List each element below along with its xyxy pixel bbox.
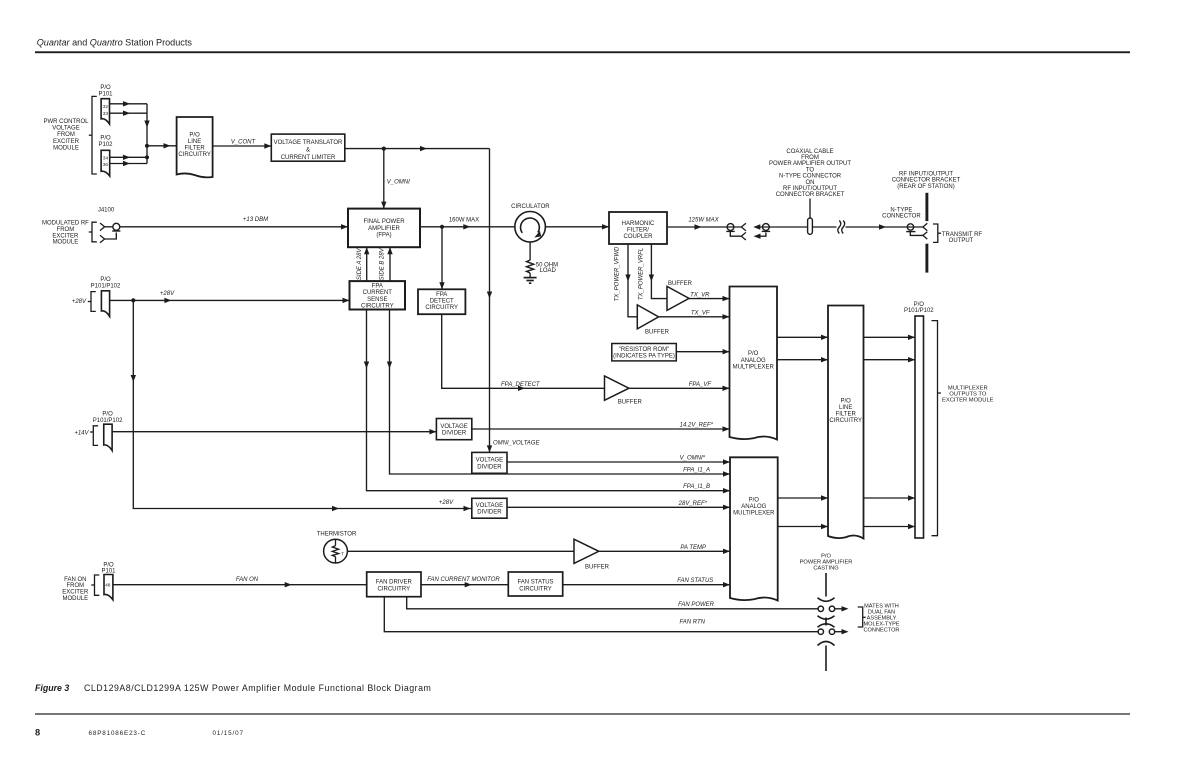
svg-text:CASTING: CASTING xyxy=(813,566,838,572)
ground xyxy=(524,277,537,279)
wire to FPA detect xyxy=(441,227,443,289)
svg-text:68P81086E23-C: 68P81086E23-C xyxy=(89,730,147,737)
wire +13 DBM xyxy=(120,226,348,228)
svg-text:FPA_I1_B: FPA_I1_B xyxy=(683,484,710,490)
svg-text:P101/P102: P101/P102 xyxy=(904,308,934,314)
svg-text:FINAL POWER: FINAL POWER xyxy=(363,219,405,225)
svg-text:J4100: J4100 xyxy=(98,208,115,214)
svg-text:COAXIAL CABLE: COAXIAL CABLE xyxy=(786,149,833,155)
wire mux2 out 1 xyxy=(778,497,828,499)
svg-text:BUFFER: BUFFER xyxy=(668,281,693,287)
svg-text:FROM: FROM xyxy=(57,227,75,233)
wire resistor ROM to mux xyxy=(676,351,729,353)
svg-text:+28V: +28V xyxy=(160,291,175,297)
svg-text:EXCITER MODULE: EXCITER MODULE xyxy=(942,398,994,404)
svg-text:BUFFER: BUFFER xyxy=(618,400,643,406)
svg-text:+14V: +14V xyxy=(74,430,89,436)
svg-text:FAN ON: FAN ON xyxy=(236,577,259,583)
wire SIDE A 28V xyxy=(366,247,368,281)
casting boundary middle xyxy=(818,616,835,619)
svg-text:THERMISTOR: THERMISTOR xyxy=(317,532,357,538)
svg-text:ANALOG: ANALOG xyxy=(741,504,766,510)
svg-text:DIVIDER: DIVIDER xyxy=(477,464,502,470)
svg-text:28V_REF*: 28V_REF* xyxy=(678,501,708,507)
wire FAN STATUS xyxy=(563,584,730,586)
svg-text:N-TYPE: N-TYPE xyxy=(890,208,912,214)
svg-text:CIRCUITRY: CIRCUITRY xyxy=(378,587,411,593)
svg-text:AMPLIFIER: AMPLIFIER xyxy=(368,226,400,232)
svg-text:TX_VR: TX_VR xyxy=(690,292,710,298)
label TRANSMIT RF OUTPUT xyxy=(933,224,938,242)
block VOLTAGE DIVIDER 1 xyxy=(436,419,471,440)
block P/O ANALOG MULTIPLEXER (upper) xyxy=(730,287,778,440)
label MULTIPLEXER OUTPUTS TO EXCITER MODULE xyxy=(932,321,938,536)
connector J4100 coax xyxy=(100,223,105,231)
svg-text:MODULE: MODULE xyxy=(62,596,88,602)
wire mux2 out 2 xyxy=(778,526,828,528)
svg-text:DIVIDER: DIVIDER xyxy=(442,430,467,436)
connector coax plug xyxy=(753,224,760,229)
svg-text:LINE: LINE xyxy=(188,139,201,145)
junction +28V xyxy=(131,298,135,302)
svg-text:VOLTAGE TRANSLATOR: VOLTAGE TRANSLATOR xyxy=(274,140,343,146)
wire TX_VF xyxy=(659,316,730,318)
svg-text:FILTER/: FILTER/ xyxy=(627,228,649,234)
junction main xyxy=(145,144,149,148)
wire into line filter xyxy=(147,145,177,147)
wire to 50 ohm load xyxy=(529,242,531,260)
svg-text:P/O: P/O xyxy=(914,302,925,308)
svg-text:"RESISTOR ROM": "RESISTOR ROM" xyxy=(619,347,670,353)
svg-text:HARMONIC: HARMONIC xyxy=(622,221,655,227)
connector P102 (pins 34/36) xyxy=(101,150,110,176)
svg-text:PWR CONTROL: PWR CONTROL xyxy=(44,119,90,125)
svg-text:FAN STATUS: FAN STATUS xyxy=(517,580,553,586)
svg-text:FAN POWER: FAN POWER xyxy=(678,602,715,608)
svg-text:MODULE: MODULE xyxy=(53,240,79,246)
wire +28V to divider xyxy=(133,300,472,508)
cable break symbol xyxy=(837,220,846,234)
wire FAN CURRENT MONITOR xyxy=(421,584,508,586)
svg-text:FPA_VF: FPA_VF xyxy=(689,382,712,388)
svg-text:DETECT: DETECT xyxy=(430,299,454,305)
wire filter out 1 xyxy=(864,336,916,338)
svg-text:FAN STATUS: FAN STATUS xyxy=(677,578,713,584)
wire 14.2V_REF xyxy=(472,428,730,430)
wire pin 34 xyxy=(110,156,147,158)
connector +14V xyxy=(104,424,112,450)
svg-text:P/O: P/O xyxy=(100,85,111,91)
svg-text:PA TEMP: PA TEMP xyxy=(680,545,706,551)
connector PA output jack xyxy=(727,224,734,231)
svg-text:Figure 3: Figure 3 xyxy=(35,683,69,693)
block VOLTAGE DIVIDER 3 xyxy=(472,498,507,518)
block VOLTAGE TRANSLATOR & CURRENT LIMITER xyxy=(271,134,345,161)
svg-text:Quantar and Quantro Station Pr: Quantar and Quantro Station Products xyxy=(37,38,193,48)
svg-text:N-TYPE CONNECTOR: N-TYPE CONNECTOR xyxy=(779,174,842,180)
bracket panel upper xyxy=(925,193,928,221)
svg-text:SENSE: SENSE xyxy=(367,297,387,303)
buffer U2 (TX_VF) xyxy=(637,305,658,329)
wire FPA_I1_A xyxy=(390,310,731,475)
wire pin 36 xyxy=(110,163,147,165)
svg-text:CONNECTOR BRACKET: CONNECTOR BRACKET xyxy=(776,192,845,198)
leader coax label xyxy=(809,199,811,219)
svg-text:VOLTAGE: VOLTAGE xyxy=(52,126,79,132)
svg-text:V_OMNI: V_OMNI xyxy=(387,180,410,186)
svg-text:P/O: P/O xyxy=(821,553,831,559)
svg-text:CIRCUITRY: CIRCUITRY xyxy=(178,152,211,158)
block FINAL POWER AMPLIFIER (FPA) xyxy=(348,209,420,248)
block FAN DRIVER CIRCUITRY xyxy=(367,572,421,597)
wire mux1 out 2 xyxy=(777,359,828,361)
connector +28V xyxy=(101,291,109,317)
svg-text:FAN ON: FAN ON xyxy=(64,577,86,583)
wire filter out 4 xyxy=(864,526,916,528)
svg-text:14.2V_REF*: 14.2V_REF* xyxy=(680,423,714,429)
svg-text:P/O: P/O xyxy=(749,498,760,504)
wire TX_POWER_VRFL xyxy=(651,244,667,299)
svg-text:BUFFER: BUFFER xyxy=(645,330,670,336)
svg-text:MODULATED RF: MODULATED RF xyxy=(42,221,89,227)
wire FPA_I1_B xyxy=(367,310,731,491)
block P/O LINE FILTER CIRCUITRY (output) xyxy=(828,306,864,539)
svg-text:36: 36 xyxy=(103,162,109,168)
wire pin 32 xyxy=(110,103,148,105)
block HARMONIC FILTER/COUPLER xyxy=(609,212,667,244)
svg-text:MULTIPLEXER: MULTIPLEXER xyxy=(733,511,775,517)
svg-text:FPA_DETECT: FPA_DETECT xyxy=(501,382,541,388)
svg-text:FILTER: FILTER xyxy=(836,411,857,417)
svg-text:48: 48 xyxy=(105,583,111,589)
wire 125W MAX xyxy=(667,226,741,228)
wire circulator output xyxy=(545,226,609,228)
svg-text:CURRENT LIMITER: CURRENT LIMITER xyxy=(281,155,336,161)
svg-text:RF INPUT/OUTPUT: RF INPUT/OUTPUT xyxy=(783,186,837,192)
block VOLTAGE DIVIDER 2 xyxy=(472,452,507,473)
footer rule xyxy=(35,713,1130,714)
svg-text:P102: P102 xyxy=(98,142,113,148)
wire filter out 3 xyxy=(864,497,916,499)
wire translator output xyxy=(345,148,490,150)
svg-text:8: 8 xyxy=(35,728,40,738)
svg-text:160W MAX: 160W MAX xyxy=(449,217,479,223)
svg-text:P/O: P/O xyxy=(841,398,852,404)
wire V_OMNI xyxy=(383,149,385,209)
svg-text:LOAD: LOAD xyxy=(540,268,557,274)
svg-text:+13 DBM: +13 DBM xyxy=(243,217,268,223)
svg-text:CONNECTOR BRACKET: CONNECTOR BRACKET xyxy=(892,178,961,184)
svg-text:OUTPUT: OUTPUT xyxy=(949,238,974,244)
bracket FAN ON xyxy=(95,575,100,595)
svg-text:ON: ON xyxy=(806,180,815,186)
contact FAN RTN pair xyxy=(818,629,823,634)
wire V_OMNI* xyxy=(507,461,730,463)
svg-text:FILTER: FILTER xyxy=(184,145,205,151)
svg-text:MULTIPLEXER: MULTIPLEXER xyxy=(733,364,775,370)
svg-text:P101/P102: P101/P102 xyxy=(93,418,123,424)
block RESISTOR ROM xyxy=(612,344,677,361)
svg-text:(INDICATES PA TYPE): (INDICATES PA TYPE) xyxy=(613,354,675,360)
connector N-type xyxy=(886,226,923,228)
svg-text:P/O: P/O xyxy=(100,136,111,142)
svg-text:&: & xyxy=(306,147,310,153)
bracket PWR CONTROL xyxy=(92,96,97,174)
bracket +14V xyxy=(93,426,98,446)
svg-text:P101/P102: P101/P102 xyxy=(91,283,121,289)
wire FAN RTN xyxy=(384,597,818,632)
casting boundary upper xyxy=(825,573,827,597)
svg-text:POWER AMPLIFIER OUTPUT: POWER AMPLIFIER OUTPUT xyxy=(769,161,851,167)
svg-text:CIRCUITRY: CIRCUITRY xyxy=(829,418,862,424)
svg-text:CLD129A8/CLD1299A 125W Power A: CLD129A8/CLD1299A 125W Power Amplifier M… xyxy=(84,683,431,693)
svg-text:OMNI_VOLTAGE: OMNI_VOLTAGE xyxy=(493,440,540,446)
svg-text:EXCITER: EXCITER xyxy=(52,233,79,239)
wire PA TEMP xyxy=(599,550,730,552)
svg-text:TX_VF: TX_VF xyxy=(691,310,710,316)
bracket +28V xyxy=(91,292,96,312)
svg-text:P/O: P/O xyxy=(748,351,759,357)
svg-text:FAN CURRENT MONITOR: FAN CURRENT MONITOR xyxy=(427,577,500,583)
svg-text:ANALOG: ANALOG xyxy=(741,358,766,364)
connector mux outputs xyxy=(915,316,924,538)
wire pin 33 xyxy=(110,112,148,114)
bracket J4100 xyxy=(92,222,97,242)
wire filter out 2 xyxy=(864,359,916,361)
svg-text:33: 33 xyxy=(103,111,109,117)
wire 28V_REF* xyxy=(507,506,730,508)
svg-text:MODULE: MODULE xyxy=(53,145,79,151)
svg-text:V_CONT: V_CONT xyxy=(231,139,257,145)
svg-text:CURRENT: CURRENT xyxy=(363,290,393,296)
buffer U4 (PA TEMP) xyxy=(574,539,599,563)
svg-text:FAN RTN: FAN RTN xyxy=(680,620,706,626)
svg-text:LINE: LINE xyxy=(839,405,852,411)
svg-text:RF INPUT/OUTPUT: RF INPUT/OUTPUT xyxy=(899,171,953,177)
svg-text:FPA: FPA xyxy=(436,292,447,298)
bracket panel lower xyxy=(925,244,928,273)
svg-text:P/O: P/O xyxy=(103,563,114,569)
svg-text:FPA_I1_A: FPA_I1_A xyxy=(683,468,710,474)
wire FAN POWER xyxy=(407,597,819,609)
junction pin34 xyxy=(145,155,149,159)
svg-text:T: T xyxy=(341,551,344,556)
svg-text:VOLTAGE: VOLTAGE xyxy=(476,503,503,509)
svg-text:EXCITER: EXCITER xyxy=(62,590,89,596)
svg-text:EXCITER: EXCITER xyxy=(53,139,80,145)
wire SIDE B 28V xyxy=(389,247,391,281)
block P/O ANALOG MULTIPLEXER (lower) xyxy=(730,457,778,600)
block FPA CURRENT SENSE CIRCUITRY xyxy=(350,281,406,309)
wire omni feed vertical xyxy=(489,149,491,453)
svg-text:DIVIDER: DIVIDER xyxy=(477,510,502,516)
wire bus vertical xyxy=(146,104,148,164)
svg-text:FAN DRIVER: FAN DRIVER xyxy=(376,580,413,586)
svg-text:CIRCUITRY: CIRCUITRY xyxy=(519,587,552,593)
svg-text:TO: TO xyxy=(806,167,815,173)
svg-text:P/O: P/O xyxy=(100,277,111,283)
svg-text:(REAR OF STATION): (REAR OF STATION) xyxy=(897,184,954,190)
contact FAN POWER pair xyxy=(818,606,823,611)
svg-text:CIRCUITRY: CIRCUITRY xyxy=(361,303,394,309)
svg-text:32: 32 xyxy=(103,104,109,110)
svg-text:(FPA): (FPA) xyxy=(376,232,391,238)
svg-text:FROM: FROM xyxy=(66,583,84,589)
buffer U3 (FPA_VF) xyxy=(605,376,629,400)
svg-text:COUPLER: COUPLER xyxy=(623,234,653,240)
wire FPA_DETECT xyxy=(442,314,605,388)
wire V_CONT xyxy=(213,145,272,147)
svg-text:P/O: P/O xyxy=(189,132,200,138)
resistor 50 OHM LOAD xyxy=(527,260,534,273)
wire FPA output 160W xyxy=(420,226,515,228)
wire coax run xyxy=(810,226,886,228)
svg-text:TX_POWER_VFWD: TX_POWER_VFWD xyxy=(615,246,621,301)
connector P101 (pins 32/33) xyxy=(101,99,109,124)
svg-text:TX_POWER_VRFL: TX_POWER_VRFL xyxy=(638,248,644,300)
svg-text:V_OMNI*: V_OMNI* xyxy=(680,456,706,462)
svg-text:+28V: +28V xyxy=(439,500,454,506)
wire TX_POWER_VFWD xyxy=(628,244,637,317)
svg-text:34: 34 xyxy=(103,156,109,162)
junction V_OMNI xyxy=(382,147,386,151)
wire +14V xyxy=(112,431,436,433)
svg-text:125W MAX: 125W MAX xyxy=(688,217,719,223)
svg-text:CONNECTOR: CONNECTOR xyxy=(882,214,921,220)
svg-text:SIDE B 28V: SIDE B 28V xyxy=(380,247,386,280)
header rule xyxy=(35,51,1130,53)
wire +28V xyxy=(110,299,350,301)
svg-text:P101: P101 xyxy=(98,91,113,97)
svg-text:CIRCULATOR: CIRCULATOR xyxy=(511,204,550,210)
label MATES WITH DUAL FAN ASSEMBLY xyxy=(858,607,863,627)
connector FAN ON (pin 48) xyxy=(104,575,113,600)
wire FPA_VF xyxy=(629,387,730,389)
junction 160W xyxy=(440,225,444,229)
svg-text:TRANSMIT RF: TRANSMIT RF xyxy=(942,232,983,238)
coax cable capsule xyxy=(808,218,813,234)
block P/O LINE FILTER CIRCUITRY (input) xyxy=(177,117,213,177)
svg-text:+28V: +28V xyxy=(72,299,87,305)
svg-text:VOLTAGE: VOLTAGE xyxy=(476,458,503,464)
casting boundary lower xyxy=(818,642,835,646)
wire TX_VR xyxy=(689,298,730,300)
svg-text:FROM: FROM xyxy=(57,132,75,138)
svg-text:BUFFER: BUFFER xyxy=(585,565,610,571)
block FPA DETECT CIRCUITRY xyxy=(418,289,465,314)
svg-text:VOLTAGE: VOLTAGE xyxy=(440,424,467,430)
svg-text:SIDE A 28V: SIDE A 28V xyxy=(357,248,363,281)
svg-text:01/15/07: 01/15/07 xyxy=(213,730,244,737)
wire FAN ON xyxy=(113,584,367,586)
svg-text:FROM: FROM xyxy=(801,155,819,161)
wire mux1 out 1 xyxy=(777,336,828,338)
svg-text:CIRCUITRY: CIRCUITRY xyxy=(425,305,458,311)
svg-text:POWER AMPLIFIER: POWER AMPLIFIER xyxy=(800,560,853,566)
svg-text:CONNECTOR: CONNECTOR xyxy=(864,628,900,634)
block FAN STATUS CIRCUITRY xyxy=(508,572,562,596)
wire thermistor to buffer xyxy=(347,550,574,552)
svg-text:FPA: FPA xyxy=(372,284,383,290)
svg-text:P/O: P/O xyxy=(102,412,113,418)
